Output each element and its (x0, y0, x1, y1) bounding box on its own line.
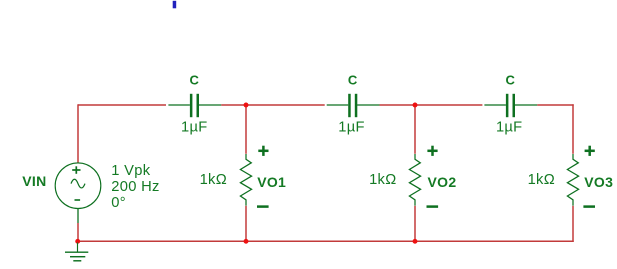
junction node VO1 top (244, 103, 249, 108)
svg-text:C: C (190, 72, 200, 87)
capacitor C1 (168, 94, 221, 117)
junction node R1 bottom (244, 239, 249, 244)
capacitor C3 (484, 94, 537, 117)
wire: column R3 upper segment (572, 104, 574, 154)
minus sign VO3 (583, 205, 595, 208)
plus sign VO3 (585, 146, 595, 156)
wire: C3 right pin to top-right corner (537, 104, 574, 106)
minus sign VO2 (427, 205, 439, 208)
resistor R1 (240, 154, 251, 206)
junction node R2 bottom (413, 239, 418, 244)
svg-text:1µF: 1µF (338, 119, 365, 135)
wire: column R3 lower segment (572, 206, 574, 242)
wire: bottom rail (78, 240, 574, 242)
svg-text:VO3: VO3 (584, 174, 613, 190)
svg-text:C: C (348, 72, 358, 87)
wire: left column VIN top lead (77, 104, 79, 163)
wire: top rail from VIN column to C1 left pin (78, 104, 166, 106)
svg-text:1µF: 1µF (496, 119, 523, 135)
wire: VIN bottom to ground node (77, 223, 79, 241)
wire: node VO2 to C3 left pin (415, 104, 482, 106)
wire: column R1 lower segment (245, 206, 247, 242)
svg-text:C: C (506, 72, 516, 87)
minus sign VO1 (257, 205, 269, 208)
wire: column R2 lower segment (414, 206, 416, 242)
source VIN (55, 163, 101, 223)
plus sign VO2 (427, 146, 437, 156)
capacitor C2 (327, 94, 380, 117)
wire: C2 right pin to node VO2 (380, 104, 416, 106)
wire: column R1 upper segment (245, 105, 247, 154)
svg-text:1kΩ: 1kΩ (200, 172, 227, 188)
svg-text:VIN: VIN (22, 173, 46, 189)
wire: column R2 upper segment (414, 105, 416, 154)
svg-text:1µF: 1µF (181, 119, 208, 135)
junction ground node (75, 239, 80, 244)
ground (65, 243, 88, 261)
wire: C1 right pin to node VO1 (221, 104, 246, 106)
svg-text:1kΩ: 1kΩ (528, 172, 555, 188)
svg-text:200 Hz: 200 Hz (111, 179, 159, 195)
blue I cursor mark (173, 1, 177, 9)
svg-text:VO2: VO2 (428, 174, 457, 190)
resistor R2 (409, 154, 420, 206)
resistor R3 (567, 154, 578, 206)
svg-text:1 Vpk: 1 Vpk (111, 163, 150, 179)
junction node VO2 top (413, 103, 418, 108)
svg-text:1kΩ: 1kΩ (369, 172, 396, 188)
wire: node VO1 to C2 left pin (246, 104, 325, 106)
plus sign VO1 (258, 146, 268, 156)
svg-text:VO1: VO1 (257, 174, 286, 190)
svg-text:0°: 0° (111, 195, 126, 211)
